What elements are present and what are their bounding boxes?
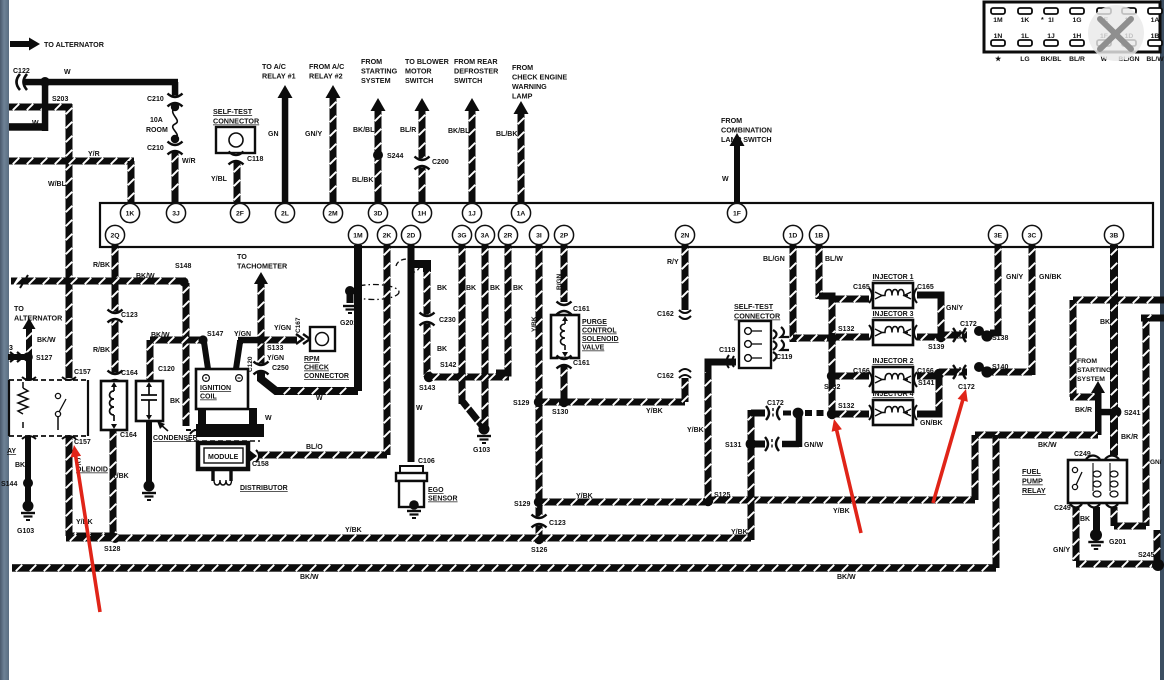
dot EGO ground xyxy=(409,500,419,510)
svg-text:3J: 3J xyxy=(172,210,180,217)
junction S241 xyxy=(1111,407,1122,418)
hatch inj4 right xyxy=(936,386,942,392)
wire W corner down to C210 xyxy=(172,82,179,96)
svg-text:CONDENSER: CONDENSER xyxy=(153,435,198,442)
svg-text:W: W xyxy=(32,120,39,127)
svg-text:S144: S144 xyxy=(1,481,17,488)
svg-text:C172: C172 xyxy=(960,321,977,328)
bus pin 1K xyxy=(120,203,139,222)
svg-text:1K: 1K xyxy=(126,210,135,217)
arrow 1A from check engine warning lamp xyxy=(514,101,529,203)
svg-text:WARNING: WARNING xyxy=(512,82,547,91)
svg-text:GN/BK: GN/BK xyxy=(1039,274,1062,281)
svg-text:LG: LG xyxy=(1020,56,1029,63)
bus pin 2L xyxy=(275,203,294,222)
capacitor box C120 xyxy=(136,381,163,421)
wire G201 stub xyxy=(347,291,354,303)
injector 2 box xyxy=(869,367,917,392)
svg-text:2K: 2K xyxy=(383,232,392,239)
svg-text:BL/W: BL/W xyxy=(825,256,843,263)
svg-text:BK/R: BK/R xyxy=(1075,407,1092,414)
svg-text:1B: 1B xyxy=(815,232,824,239)
connector C123 (left) xyxy=(108,310,123,323)
hatch on W elbow xyxy=(284,388,290,394)
svg-text:CONNECTOR: CONNECTOR xyxy=(734,312,781,321)
svg-text:BK: BK xyxy=(437,285,447,292)
ground (EGO) xyxy=(407,511,421,518)
svg-text:OLENOID: OLENOID xyxy=(76,467,108,474)
svg-text:BK: BK xyxy=(437,346,447,353)
svg-text:S203: S203 xyxy=(52,96,68,103)
junction S143 xyxy=(424,372,434,382)
junction S125 xyxy=(703,496,713,506)
wire relay BK to G201 xyxy=(1093,507,1100,533)
junction S133 xyxy=(256,335,265,344)
svg-text:DISTRIBUTOR: DISTRIBUTOR xyxy=(240,485,288,492)
svg-text:Y/BK: Y/BK xyxy=(345,527,362,534)
wire S133 to RPM connector xyxy=(261,337,297,344)
bus pin 3J xyxy=(166,203,185,222)
wire GN/Y left leg xyxy=(1073,507,1080,561)
corner 3E to S138 xyxy=(990,330,998,337)
connector C210 lower xyxy=(168,142,183,155)
RPM check connector box xyxy=(310,327,335,351)
svg-text:Y/BK: Y/BK xyxy=(833,508,850,515)
dot C172 lower b xyxy=(981,366,992,377)
svg-text:3I: 3I xyxy=(536,232,542,239)
wire R/GN 2P down xyxy=(561,245,568,302)
svg-text:Y/BK: Y/BK xyxy=(646,408,663,415)
connector C249 top chevrons xyxy=(1086,456,1119,460)
svg-text:2R: 2R xyxy=(504,232,513,239)
svg-text:R/BK: R/BK xyxy=(93,262,110,269)
svg-text:SYSTEM: SYSTEM xyxy=(1077,376,1105,383)
wire-end slashes xyxy=(13,274,28,288)
wire relay right leg xyxy=(1111,507,1118,526)
svg-text:BK/BL: BK/BL xyxy=(353,127,375,134)
label SELF-TEST CONNECTOR (top) xyxy=(213,107,260,126)
svg-text:GN/Y: GN/Y xyxy=(946,305,963,312)
connector C172 right cluster xyxy=(953,328,966,379)
purge control solenoid valve box xyxy=(551,315,579,358)
junction S132 bottom xyxy=(827,409,837,419)
svg-text:VALVE: VALVE xyxy=(582,345,605,352)
bus pin 2N xyxy=(675,225,694,244)
wire C172 row B elbow xyxy=(782,416,799,447)
svg-text:FUEL: FUEL xyxy=(1022,467,1041,476)
svg-text:C210: C210 xyxy=(147,96,164,103)
svg-text:DEFROSTER: DEFROSTER xyxy=(454,67,499,76)
bus pin 1M xyxy=(348,225,367,244)
bus pin 2D xyxy=(401,225,420,244)
wire GN/Y right edge down xyxy=(1154,530,1161,562)
svg-text:BL/O: BL/O xyxy=(306,444,323,451)
wire R/BK 2Q down xyxy=(112,245,119,376)
svg-text:Y/BL: Y/BL xyxy=(211,176,228,183)
wire S131 column xyxy=(748,410,755,540)
svg-text:C200: C200 xyxy=(432,159,449,166)
svg-text:GN: GN xyxy=(268,131,279,138)
arrow 3D from starting system xyxy=(371,98,386,203)
wire S133 to coil xyxy=(238,337,261,344)
wire 2D W to EGO sensor xyxy=(408,245,415,462)
svg-text:2P: 2P xyxy=(560,232,569,239)
svg-text:BL/BK: BL/BK xyxy=(352,177,373,184)
connector legend table xyxy=(984,2,1164,63)
svg-text:S142: S142 xyxy=(440,362,456,369)
svg-text:COMBINATION: COMBINATION xyxy=(721,126,772,135)
dot G201 right xyxy=(1090,529,1102,541)
svg-text:W: W xyxy=(416,405,423,412)
svg-text:★: ★ xyxy=(995,55,1002,63)
svg-text:TO ALTERNATOR: TO ALTERNATOR xyxy=(44,40,105,49)
dot condenser ground xyxy=(144,481,155,492)
svg-text:2L: 2L xyxy=(281,210,289,217)
svg-text:C165: C165 xyxy=(853,284,870,291)
svg-text:S147: S147 xyxy=(207,331,223,338)
injector 1 box xyxy=(869,283,917,308)
junction S244 xyxy=(373,150,383,160)
wire 1M down xyxy=(354,245,362,391)
svg-text:Y/GN: Y/GN xyxy=(274,325,291,332)
wire inj1 right to S139 xyxy=(917,295,941,335)
svg-text:S139: S139 xyxy=(928,344,944,351)
dashed ellipse on 2D xyxy=(396,259,420,273)
wire 3G diagonal to G103 xyxy=(463,402,483,427)
bus pin 3E xyxy=(988,225,1007,244)
svg-text:BK/W: BK/W xyxy=(37,337,56,344)
wire S131 row B xyxy=(751,441,765,448)
svg-text:BL/W: BL/W xyxy=(1146,56,1164,63)
svg-text:Y/BK: Y/BK xyxy=(112,473,129,480)
svg-text:STARTING: STARTING xyxy=(361,67,398,76)
dot C172 left row A xyxy=(793,408,804,419)
svg-text:S126: S126 xyxy=(531,547,547,554)
bus pin 2F xyxy=(230,203,249,222)
junction S147 xyxy=(198,335,207,344)
arrow 2M from A/C relay 2 xyxy=(326,85,341,203)
svg-text:W/BL: W/BL xyxy=(48,181,67,188)
svg-text:S127: S127 xyxy=(36,355,52,362)
svg-text:C172: C172 xyxy=(767,400,784,407)
wire GN/BK 3C down xyxy=(1029,245,1036,375)
svg-text:C250: C250 xyxy=(272,365,289,372)
svg-text:C167: C167 xyxy=(295,317,302,333)
wire W/BL stub from left edge xyxy=(9,104,72,111)
svg-text:W: W xyxy=(316,395,323,402)
junction S142 xyxy=(456,372,466,382)
svg-text:G201: G201 xyxy=(1109,539,1126,546)
svg-text:C161: C161 xyxy=(573,360,590,367)
wire R/Y 2N upper xyxy=(682,245,689,310)
svg-text:W/R: W/R xyxy=(182,158,196,165)
fuel pump relay box xyxy=(1068,460,1127,503)
svg-text:FROM: FROM xyxy=(1077,358,1097,365)
wire purge valve to S130 xyxy=(561,366,568,402)
svg-text:1D: 1D xyxy=(789,232,798,239)
svg-text:TO A/C: TO A/C xyxy=(262,62,286,71)
label FROM REAR DEFROSTER SWITCH xyxy=(454,57,499,85)
svg-text:C106: C106 xyxy=(418,458,435,465)
junction S139 xyxy=(936,332,946,342)
svg-text:C158: C158 xyxy=(252,461,269,468)
junction S132 mid xyxy=(827,371,837,381)
label FROM STARTING SYSTEM (right) xyxy=(1077,358,1111,383)
wire BK S148 down to module xyxy=(183,283,190,426)
svg-text:TO BLOWER: TO BLOWER xyxy=(405,57,450,66)
svg-text:COIL: COIL xyxy=(200,394,217,401)
svg-text:C162: C162 xyxy=(657,373,674,380)
relay box C157 xyxy=(9,377,88,439)
svg-text:BK/W: BK/W xyxy=(300,574,319,581)
svg-text:C161: C161 xyxy=(573,306,590,313)
wire riser to Y/BK row xyxy=(972,435,979,500)
svg-text:BK/BL: BK/BL xyxy=(448,128,470,135)
bus pin 3D xyxy=(368,203,387,222)
svg-text:1N: 1N xyxy=(994,33,1003,40)
svg-text:1J: 1J xyxy=(468,210,476,217)
label FROM CHECK ENGINE WARNING LAMP xyxy=(512,63,567,101)
label IGNITION COIL xyxy=(200,385,231,401)
wire BK/W bottom riser xyxy=(993,435,1000,568)
coil output legs W xyxy=(196,408,264,437)
junction S148 xyxy=(179,277,188,286)
self-test connector box (top) xyxy=(216,127,255,153)
coil box C164 xyxy=(101,381,127,430)
junction S130 xyxy=(559,397,569,407)
right edge strip xyxy=(1160,0,1164,680)
svg-text:S245: S245 xyxy=(1138,552,1154,559)
svg-text:RELAY: RELAY xyxy=(1022,486,1046,495)
svg-text:3G: 3G xyxy=(457,232,466,239)
svg-text:C164: C164 xyxy=(121,370,138,377)
svg-text:S125: S125 xyxy=(714,492,730,499)
svg-text:G103: G103 xyxy=(17,528,34,535)
wire GN/Y bottom to S245 xyxy=(1076,561,1157,568)
corner Ybk bottom to S131 xyxy=(748,536,755,540)
arrow 1H to blower motor switch xyxy=(415,98,430,203)
svg-text:1B: 1B xyxy=(1151,33,1160,40)
connector C230 xyxy=(420,313,435,326)
svg-text:MOTOR: MOTOR xyxy=(405,67,432,76)
junction S141 xyxy=(934,369,944,379)
red arrow 1 (C157) xyxy=(71,445,100,612)
wire C164 to S128 xyxy=(110,430,117,539)
svg-text:BL/GN: BL/GN xyxy=(763,256,785,263)
svg-text:IGNITION: IGNITION xyxy=(200,385,231,392)
wire inj2 left feed xyxy=(836,373,869,380)
svg-text:C120: C120 xyxy=(247,356,254,372)
hatch inj1 right xyxy=(938,306,944,312)
svg-text:BK: BK xyxy=(1080,516,1090,523)
wire BK/R to S241 xyxy=(1098,409,1114,416)
svg-text:10A: 10A xyxy=(150,117,163,124)
connector C162 upper end xyxy=(679,310,691,319)
svg-text:1A: 1A xyxy=(1151,17,1160,24)
bus pin 3G xyxy=(452,225,471,244)
junction S126 xyxy=(534,534,544,544)
label FROM STARTING SYSTEM (top) xyxy=(361,57,398,85)
wire BK to S143 xyxy=(424,268,431,377)
svg-text:S241: S241 xyxy=(1124,410,1140,417)
wire W/BL down to relay xyxy=(66,104,73,378)
svg-text:FROM REAR: FROM REAR xyxy=(454,57,498,66)
label SELF-TEST CONNECTOR (mid) xyxy=(734,302,781,321)
branch corner 2D to BK xyxy=(411,264,427,272)
svg-text:G201: G201 xyxy=(340,320,357,327)
connector C167 chevrons xyxy=(296,334,310,344)
svg-text:SELF-TEST: SELF-TEST xyxy=(213,107,253,116)
wire BK/W long bottom xyxy=(12,564,996,572)
svg-text:S129: S129 xyxy=(514,501,530,508)
svg-text:TACHOMETER: TACHOMETER xyxy=(237,262,288,271)
ground G103 (left) xyxy=(21,513,35,520)
label FUEL PUMP RELAY xyxy=(1022,467,1046,495)
svg-text:3E: 3E xyxy=(994,232,1003,239)
label PURGE CONTROL SOLENOID VALVE xyxy=(582,319,619,352)
svg-text:AY: AY xyxy=(7,448,16,455)
wire inj3 right to S139 xyxy=(917,334,941,341)
svg-text:BK/W: BK/W xyxy=(151,332,170,339)
connector C161 top xyxy=(557,302,572,315)
wire down to C120 box xyxy=(147,340,154,381)
wire inj4 left feed xyxy=(836,411,869,418)
svg-text:BL/R: BL/R xyxy=(400,127,416,134)
svg-text:S133: S133 xyxy=(267,345,283,352)
svg-text:S148: S148 xyxy=(175,263,191,270)
junction S203 xyxy=(40,77,50,87)
wire BL/O module to 2K xyxy=(259,452,387,459)
self-test connector box (mid) xyxy=(739,321,771,368)
connector C119 arcs xyxy=(727,355,735,368)
wire BK/W to S147 xyxy=(150,337,203,344)
svg-text:SOLENOID: SOLENOID xyxy=(582,336,619,343)
svg-text:3C: 3C xyxy=(1028,232,1037,239)
junction S127 xyxy=(23,352,33,362)
svg-text:Y/BK: Y/BK xyxy=(687,427,704,434)
svg-text:C165: C165 xyxy=(917,284,934,291)
svg-text:PUMP: PUMP xyxy=(1022,477,1043,486)
svg-text:W: W xyxy=(722,176,729,183)
ground G201 (right) xyxy=(1088,542,1103,549)
distributor cap connector band xyxy=(186,430,260,441)
bus pin 3A xyxy=(475,225,494,244)
wire top right horizontal xyxy=(1073,297,1164,304)
bus pin 1D xyxy=(783,225,802,244)
svg-text:C120: C120 xyxy=(158,366,175,373)
svg-text:RPM: RPM xyxy=(304,356,320,363)
svg-text:C119: C119 xyxy=(719,347,735,354)
svg-text:FROM A/C: FROM A/C xyxy=(309,62,344,71)
dot G103 left xyxy=(23,501,34,512)
ground G201 (distributor) xyxy=(343,306,357,313)
connector C250 xyxy=(254,362,269,375)
svg-text:CONNECTOR: CONNECTOR xyxy=(213,117,260,126)
svg-text:GN/BK: GN/BK xyxy=(920,420,943,427)
wire BK/W relay row xyxy=(975,432,1098,439)
svg-text:1L: 1L xyxy=(1021,33,1029,40)
svg-text:RELAY #2: RELAY #2 xyxy=(309,72,343,81)
injector 3 box xyxy=(869,320,917,345)
arrow 1J from rear defroster switch xyxy=(465,98,480,203)
wire Y/R horizontal xyxy=(9,158,134,165)
svg-text:3A: 3A xyxy=(481,232,490,239)
junction S144 xyxy=(23,478,33,488)
svg-text:BL/BK: BL/BK xyxy=(496,131,517,138)
connector bus bar xyxy=(100,203,1153,247)
connector C161 bottom xyxy=(557,356,572,369)
connector C200 xyxy=(415,157,430,170)
bus pin 3C xyxy=(1022,225,1041,244)
connector C172 left cluster row A xyxy=(766,406,791,420)
label TO ALTERNATOR (left) xyxy=(14,304,63,323)
arrow to tachometer xyxy=(254,272,268,340)
wire S132 column xyxy=(829,299,836,414)
svg-text:ALTERNATOR: ALTERNATOR xyxy=(14,314,63,323)
svg-text:Y/BK: Y/BK xyxy=(531,316,538,332)
svg-text:BK: BK xyxy=(513,285,523,292)
wire 3A down xyxy=(482,245,489,427)
wire from S203 down xyxy=(42,82,49,131)
label FROM COMBINATION LAMP SWITCH xyxy=(721,116,772,144)
ground (condenser) xyxy=(142,493,156,500)
wire relay to G103 xyxy=(25,436,31,506)
wire 2K down xyxy=(384,245,391,455)
wire Y/BK long S129 row xyxy=(539,499,708,506)
arrow from starting system (right) xyxy=(1091,381,1105,435)
svg-text:STARTING: STARTING xyxy=(1077,367,1111,374)
svg-text:R/Y: R/Y xyxy=(667,259,679,266)
svg-text:SELF-TEST: SELF-TEST xyxy=(734,302,774,311)
svg-text:BK/R: BK/R xyxy=(1121,434,1138,441)
svg-text:INJECTOR 4: INJECTOR 4 xyxy=(872,391,913,398)
wire inj4 right to S141 xyxy=(917,376,939,414)
bus pin 1J xyxy=(462,203,481,222)
bus pin 2R xyxy=(498,225,517,244)
wire S129-S130 to 2N corner xyxy=(539,399,685,406)
svg-text:S141: S141 xyxy=(918,380,934,387)
svg-text:INJECTOR 1: INJECTOR 1 xyxy=(872,274,913,281)
wire C250 to W elbow xyxy=(261,371,358,391)
svg-text:SWITCH: SWITCH xyxy=(405,76,433,85)
dot G201 tap xyxy=(345,286,355,296)
svg-text:S132: S132 xyxy=(824,384,840,391)
svg-text:BK: BK xyxy=(490,285,500,292)
wire right horizontal 2 xyxy=(1141,315,1164,322)
svg-text:2F: 2F xyxy=(236,210,244,217)
red arrow 3 (C172) xyxy=(933,389,968,503)
svg-text:R/GN: R/GN xyxy=(556,273,563,290)
svg-text:TO: TO xyxy=(14,304,24,313)
svg-text:CHECK ENGINE: CHECK ENGINE xyxy=(512,73,567,82)
corner 1B to injector column xyxy=(819,296,832,304)
svg-text:BK: BK xyxy=(466,285,476,292)
coil input legs xyxy=(204,342,240,369)
wire Y/BK mid row right xyxy=(708,497,975,504)
connector C118 xyxy=(229,152,244,165)
svg-text:*: * xyxy=(1041,17,1044,24)
svg-text:1A: 1A xyxy=(517,210,526,217)
svg-text:G103: G103 xyxy=(473,447,490,454)
svg-text:EGO: EGO xyxy=(428,487,444,494)
bus pin 2M xyxy=(323,203,342,222)
svg-text:S131: S131 xyxy=(725,442,741,449)
wire riser1 bottom jog xyxy=(1070,394,1095,401)
bus pin 3I xyxy=(529,225,548,244)
svg-text:RELAY #1: RELAY #1 xyxy=(262,72,296,81)
svg-text:C210: C210 xyxy=(147,145,164,152)
svg-text:GN/Y: GN/Y xyxy=(1006,274,1023,281)
